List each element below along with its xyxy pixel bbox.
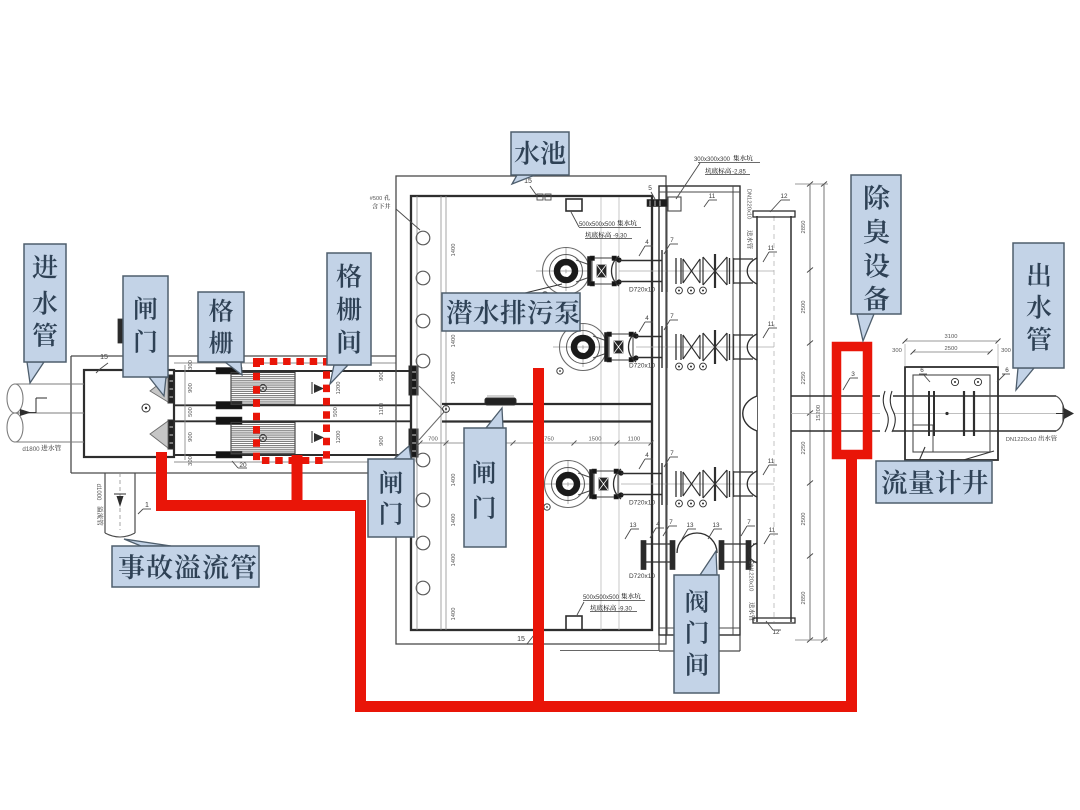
pool wall inner lines xyxy=(416,196,418,630)
svg-text:300: 300 xyxy=(892,348,902,354)
svg-text:7: 7 xyxy=(670,313,674,320)
svg-text:1400: 1400 xyxy=(451,554,457,567)
svg-text:300x300x300: 300x300x300 xyxy=(694,157,731,163)
svg-text:11: 11 xyxy=(769,527,776,534)
valve room walls xyxy=(659,186,740,635)
chamber gate upper xyxy=(168,375,174,403)
flow meter well xyxy=(905,367,998,460)
svg-text:DN1220x10: DN1220x10 xyxy=(1006,437,1037,443)
label 进水管 xyxy=(27,362,44,383)
svg-text:7: 7 xyxy=(669,519,673,526)
svg-text:1400: 1400 xyxy=(451,244,457,257)
svg-text:4: 4 xyxy=(645,315,649,322)
svg-text:1400: 1400 xyxy=(451,474,457,487)
red drop from gate xyxy=(156,452,167,506)
discharge pipe row 2 xyxy=(636,336,662,338)
pool entry gates xyxy=(409,366,418,395)
svg-text:13: 13 xyxy=(686,522,694,529)
header pipe xyxy=(756,216,758,622)
svg-text:D720x10: D720x10 xyxy=(629,287,655,294)
flare diagonals xyxy=(419,386,444,411)
red flow path main xyxy=(156,459,852,707)
label 阀门间 xyxy=(700,551,717,575)
label 格栅间 xyxy=(330,365,348,384)
label 格栅 xyxy=(225,362,242,375)
small dark rect behind gate label xyxy=(118,319,123,343)
sump lower xyxy=(566,616,582,630)
svg-text:500x500x500: 500x500x500 xyxy=(579,222,616,228)
red center drop xyxy=(533,368,544,707)
DN1220 riser label bottom xyxy=(748,561,756,621)
valve group at 271 xyxy=(661,250,663,292)
svg-text:2850: 2850 xyxy=(801,221,807,234)
submersible pump 3 xyxy=(538,483,592,485)
svg-text:500: 500 xyxy=(333,407,339,417)
svg-text:1: 1 xyxy=(145,502,149,509)
svg-text:900: 900 xyxy=(379,436,385,446)
valve room sump note xyxy=(698,162,760,164)
bar screen upper (hatched) xyxy=(231,373,295,405)
pool inner wall xyxy=(411,196,652,630)
inlet chamber outer walls xyxy=(71,355,396,357)
svg-text:2850: 2850 xyxy=(801,592,807,605)
svg-text:-2.85: -2.85 xyxy=(732,170,746,176)
svg-text:1500: 1500 xyxy=(589,437,602,443)
svg-text:2250: 2250 xyxy=(801,442,807,455)
svg-text:6: 6 xyxy=(920,367,924,374)
svg-text:1200: 1200 xyxy=(336,431,342,444)
svg-text:1100: 1100 xyxy=(379,403,385,415)
svg-text:7: 7 xyxy=(747,519,751,526)
manhole circles xyxy=(416,231,430,245)
mid channel gate xyxy=(485,398,516,405)
outlet pipe xyxy=(791,395,1056,397)
overflow arrow xyxy=(114,493,126,495)
svg-text:4: 4 xyxy=(645,239,649,246)
svg-text:300: 300 xyxy=(188,360,194,370)
svg-text:500: 500 xyxy=(188,407,194,417)
svg-text:11: 11 xyxy=(709,193,716,200)
valve group at 484 xyxy=(661,463,663,505)
svg-text:300: 300 xyxy=(188,456,194,466)
svg-text:3: 3 xyxy=(851,371,855,378)
red dashed screen room box xyxy=(257,362,327,461)
svg-text:1400: 1400 xyxy=(451,608,457,621)
pipe break symbol xyxy=(880,392,893,432)
pool outer wall xyxy=(396,176,666,644)
channel walls xyxy=(174,370,411,372)
inlet pipe d1800 lower xyxy=(14,441,84,443)
svg-text:d1000: d1000 xyxy=(95,484,101,501)
bar screen lower (hatched) xyxy=(231,423,295,455)
svg-text:3100: 3100 xyxy=(945,334,958,340)
svg-text:-9.30: -9.30 xyxy=(618,607,632,613)
svg-text:D720x10: D720x10 xyxy=(629,573,655,580)
svg-text:1400: 1400 xyxy=(451,372,457,385)
svg-text:700: 700 xyxy=(428,437,438,443)
svg-text:DN1220x10: DN1220x10 xyxy=(748,561,754,592)
label 水池 xyxy=(512,175,535,184)
svg-text:1200: 1200 xyxy=(336,382,342,395)
svg-text:13: 13 xyxy=(629,522,637,529)
pool to valve room stub xyxy=(647,200,667,207)
svg-text:2500: 2500 xyxy=(801,301,807,314)
svg-text:15: 15 xyxy=(517,636,525,643)
label 闸门-mid-b xyxy=(486,408,503,428)
svg-text:4: 4 xyxy=(645,452,649,459)
label 流量计井 xyxy=(919,447,925,461)
label 除臭设备 xyxy=(857,314,874,341)
svg-text:1400: 1400 xyxy=(451,514,457,527)
svg-text:2250: 2250 xyxy=(801,372,807,385)
discharge pipe row 1 xyxy=(619,260,662,262)
label 闸门-chamber xyxy=(149,377,166,396)
submersible pump 1 xyxy=(536,270,590,272)
svg-text:15: 15 xyxy=(100,354,108,361)
submersible pump 2 xyxy=(553,346,607,348)
well dims xyxy=(905,340,998,342)
svg-text:900: 900 xyxy=(188,383,194,393)
svg-text:DN1220x10: DN1220x10 xyxy=(746,189,752,220)
red drop from screen xyxy=(292,455,303,506)
svg-text:-9.30: -9.30 xyxy=(613,234,627,240)
outlet pipe end xyxy=(1056,396,1064,431)
well flanges xyxy=(928,391,930,436)
label 潜水排污泵 xyxy=(525,284,562,293)
svg-text:15200: 15200 xyxy=(816,405,822,421)
accident overflow pipe d1000 xyxy=(104,473,106,533)
svg-text:6: 6 xyxy=(1005,367,1009,374)
pool mid walls xyxy=(442,403,652,405)
valve group at 347 xyxy=(661,326,663,368)
sump upper xyxy=(566,199,582,211)
red highlight deodorizer xyxy=(837,347,868,455)
inlet chamber xyxy=(84,370,174,457)
svg-text:7: 7 xyxy=(670,450,674,457)
pool bottom dims xyxy=(420,442,652,444)
overflow pipe text xyxy=(95,484,103,526)
inlet pipe d1800 upper xyxy=(14,383,84,385)
svg-text:1100: 1100 xyxy=(628,437,640,443)
funnel lines xyxy=(150,377,168,402)
svg-text:5: 5 xyxy=(648,185,652,192)
reserve pipe row 4 xyxy=(641,541,646,570)
svg-text:1400: 1400 xyxy=(451,335,457,348)
svg-text:300: 300 xyxy=(1001,348,1011,354)
svg-text:900: 900 xyxy=(188,432,194,442)
svg-text:12: 12 xyxy=(780,193,788,200)
chamber symbol xyxy=(142,404,150,412)
DN1220 riser label top xyxy=(746,189,754,249)
header tee bulge xyxy=(743,396,757,431)
svg-text:750: 750 xyxy=(544,437,554,443)
svg-text:7: 7 xyxy=(670,237,674,244)
svg-text:2500: 2500 xyxy=(801,513,807,526)
svg-text:#500: #500 xyxy=(370,196,382,202)
label 事故溢流管 xyxy=(124,539,171,546)
inlet flow arrow xyxy=(35,398,37,413)
svg-text:d1800: d1800 xyxy=(22,446,40,453)
svg-text:13: 13 xyxy=(712,522,720,529)
channel gate slots left xyxy=(216,368,242,375)
label 闸门-mid-a xyxy=(394,446,411,459)
channel flow arrows xyxy=(311,382,313,394)
discharge pipe row 3 xyxy=(621,473,662,475)
label 出水管 xyxy=(1016,368,1034,390)
svg-text:500x500x500: 500x500x500 xyxy=(583,595,620,601)
right dimension chain xyxy=(809,184,811,640)
svg-text:D720x10: D720x10 xyxy=(629,500,655,507)
svg-text:900: 900 xyxy=(379,371,385,381)
svg-text:2500: 2500 xyxy=(945,346,958,352)
chamber gate lower xyxy=(168,420,174,449)
svg-text:D720x10: D720x10 xyxy=(629,363,655,370)
pump aux symbols xyxy=(542,292,548,298)
